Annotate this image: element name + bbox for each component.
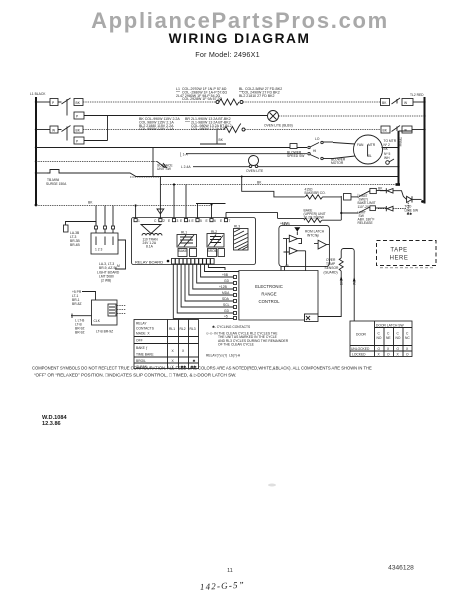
- wire dashed below diode2: [407, 203, 409, 213]
- wire: [58, 101, 62, 103]
- svg-text:OVEN LITE: OVEN LITE: [246, 169, 264, 173]
- svg-text:8.1A: 8.1A: [146, 245, 154, 249]
- svg-text:6: 6: [214, 219, 216, 223]
- svg-text:CONTROL: CONTROL: [258, 299, 280, 304]
- svg-text:+12V: +12V: [280, 222, 289, 226]
- wire diode1 to diode2: [393, 191, 407, 200]
- svg-text:RL1: RL1: [169, 327, 175, 331]
- resistor bake unit: [304, 218, 322, 222]
- svg-text:11: 11: [227, 568, 233, 574]
- wire row4 from L1 to surface switch: [36, 161, 157, 163]
- svg-text:O: O: [397, 347, 400, 351]
- diode 2: [407, 196, 412, 202]
- wire row1b to oven light: [84, 115, 267, 117]
- relay board outline: [132, 218, 256, 265]
- svg-text:GD: GD: [224, 309, 230, 313]
- svg-text:MOTOR: MOTOR: [331, 161, 344, 165]
- power arrow: [294, 227, 300, 231]
- svg-text:1: 1: [138, 219, 140, 223]
- wire row2b: [84, 140, 108, 142]
- svg-text:(GUARD): (GUARD): [324, 271, 338, 275]
- clock box: [92, 300, 118, 325]
- terminal box row2 right b: [402, 126, 412, 133]
- ERC left pins: [234, 276, 237, 320]
- oven light 2 lamp: [249, 156, 259, 166]
- svg-text:COMPONENT SYMBOLS DO NOT REFLE: COMPONENT SYMBOLS DO NOT REFLECT TRUE CO…: [32, 366, 372, 371]
- svg-text:142-G-5”: 142-G-5”: [200, 580, 246, 592]
- wire oven light 2 right: [258, 166, 399, 168]
- svg-text:GD: GD: [224, 279, 230, 283]
- light board label: [97, 262, 120, 283]
- transformer: [141, 225, 161, 234]
- svg-text:NO: NO: [396, 336, 401, 340]
- wire drop from row2 resistor BK: [216, 130, 218, 145]
- ERC box electronic range control: [239, 271, 318, 321]
- junction dots on L2 bus: [421, 101, 426, 203]
- over temp sensor labels: [324, 258, 340, 275]
- svg-text:BAKE ƒ: BAKE ƒ: [136, 346, 148, 350]
- label block row1 center: [176, 87, 227, 101]
- svg-text:RL1: RL1: [181, 231, 187, 235]
- vertical tie row1b-row2b: [107, 116, 109, 141]
- svg-text:+5: +5: [285, 264, 289, 268]
- motor centrifugal switch: [386, 161, 390, 165]
- switch row1: [62, 98, 71, 104]
- svg-text:AppliancePartsPros.com: AppliancePartsPros.com: [91, 8, 389, 33]
- svg-text:RELAY BOARD: RELAY BOARD: [135, 260, 163, 265]
- blower switch contacts HI: [308, 153, 310, 155]
- wire row1 to resistor: [83, 101, 216, 103]
- svg-text:O: O: [387, 353, 390, 357]
- svg-text:CLK: CLK: [94, 319, 101, 323]
- svg-text:✱✱: ✱✱: [407, 212, 413, 216]
- tape box extra dash: [380, 267, 434, 269]
- wire into clock top: [82, 292, 96, 301]
- svg-text:OVEN LITE (BLBS): OVEN LITE (BLBS): [264, 124, 293, 128]
- connector strip squares: [172, 259, 215, 265]
- limit switch bake: [359, 191, 370, 197]
- svg-text:+12B: +12B: [219, 285, 228, 289]
- svg-text:OF THE CLEAN CYCLE: OF THE CLEAN CYCLE: [218, 343, 255, 347]
- svg-text:TIME BAKE: TIME BAKE: [136, 353, 154, 357]
- legend cycling contacts: [206, 325, 289, 358]
- wire to L2: [412, 129, 425, 131]
- wire drop to row2b: [66, 131, 68, 141]
- motor right tiny labels: [384, 139, 397, 160]
- svg-text:3: 3: [177, 219, 179, 223]
- switch row1 right: [392, 98, 401, 104]
- terminal box TB row1: [50, 99, 58, 106]
- wire to L2: [413, 101, 425, 103]
- svg-text:SDA: SDA: [222, 297, 230, 301]
- limit switch broil: [359, 207, 370, 213]
- svg-text:WIRING DIAGRAM: WIRING DIAGRAM: [169, 31, 311, 46]
- switch row2: [62, 126, 71, 132]
- wire oven light 1 to L2: [279, 115, 425, 117]
- terminal box row2 right a: [381, 126, 390, 133]
- svg-text:LT-B BR-9Z: LT-B BR-9Z: [96, 330, 113, 334]
- svg-text:DOOR LATCH SW: DOOR LATCH SW: [376, 323, 404, 327]
- op-amp A: [289, 235, 297, 242]
- wire row1 left: [36, 101, 50, 103]
- resistor broil unit row1: [216, 101, 219, 104]
- svg-text:TAPE: TAPE: [390, 248, 407, 254]
- svg-text:BK: BK: [257, 181, 262, 185]
- label block row2 left: [139, 117, 180, 131]
- oven light 1 lamp: [268, 111, 279, 122]
- svg-text:BAKE: BAKE: [179, 249, 189, 253]
- svg-text:O: O: [378, 347, 381, 351]
- label block row1 right: [239, 87, 282, 98]
- svg-text:BL2 21810 27 FD BK2: BL2 21810 27 FD BK2: [239, 94, 275, 98]
- wire: [58, 129, 62, 131]
- wire to vertical: [323, 196, 342, 198]
- light board stubs right: [118, 240, 126, 255]
- svg-text:NO: NO: [377, 336, 382, 340]
- svg-text:O: O: [406, 353, 409, 357]
- svg-text:BROIL: BROIL: [136, 359, 146, 363]
- wire L1 bus: [35, 97, 37, 206]
- svg-text:4: 4: [189, 219, 191, 223]
- svg-text:BROIL: BROIL: [208, 249, 218, 253]
- svg-text:MDA: MDA: [222, 291, 230, 295]
- terminal box row1: [74, 99, 83, 106]
- blower motor: [354, 135, 383, 164]
- verticals ROM to ERC: [281, 266, 285, 270]
- ERC pin labels: [219, 273, 230, 319]
- terminal box row1b: [74, 112, 84, 119]
- bracket labels: [70, 231, 81, 247]
- svg-text:BK: BK: [219, 138, 224, 142]
- svg-text:SCL: SCL: [223, 303, 230, 307]
- label block row2 right: [185, 117, 232, 131]
- svg-text:L 2-4A: L 2-4A: [181, 165, 191, 169]
- svg-text:COL-980W 13 2A BTL: COL-980W 13 2A BTL: [191, 127, 226, 131]
- wire short seg under row2 drop: [200, 143, 226, 145]
- light board connector box: [91, 233, 118, 254]
- vertical x341: [340, 196, 342, 220]
- resistor row2: [224, 124, 241, 133]
- sensor loop top: [341, 249, 354, 322]
- svg-text:BK: BK: [88, 201, 93, 205]
- svg-text:OFF: OFF: [136, 339, 143, 343]
- svg-text:LOCKED: LOCKED: [352, 353, 366, 357]
- terminal box row1 right a: [381, 99, 390, 106]
- svg-text:BR-4B: BR-4B: [70, 243, 81, 247]
- svg-text:FAN: FAN: [357, 143, 364, 147]
- svg-text:5: 5: [200, 219, 202, 223]
- door latch sw table: [350, 321, 412, 357]
- label limit sw broil: [358, 211, 375, 226]
- wire long y184.5: [161, 184, 399, 186]
- svg-text:“OFF” OR “RELAXED” POSITION.: “OFF” OR “RELAXED” POSITION. □INDICATES …: [34, 373, 236, 378]
- svg-text:2: 2: [163, 219, 165, 223]
- svg-text:For Model: 2496X1: For Model: 2496X1: [195, 50, 260, 59]
- wire BK bottom from L1: [36, 205, 212, 207]
- wire weave down-right: [242, 177, 305, 197]
- svg-text:UNLOCKED: UNLOCKED: [351, 347, 370, 351]
- svg-text:RL2: RL2: [180, 327, 186, 331]
- wire L2 bus: [424, 97, 426, 204]
- svg-text:+5: +5: [224, 315, 228, 319]
- svg-text:INTChip: INTChip: [307, 234, 319, 238]
- svg-text:8L: 8L: [368, 154, 372, 158]
- tick at ROM left: [277, 212, 279, 218]
- wire to oven light 2: [193, 166, 250, 168]
- wire bottom long y177: [130, 176, 160, 178]
- svg-text:ELECTRONIC: ELECTRONIC: [255, 284, 283, 289]
- svg-text:✱- CYCLING CONTACTS: ✱- CYCLING CONTACTS: [212, 325, 251, 329]
- svg-text:✱: ✱: [193, 359, 196, 363]
- wire to vertical: [322, 219, 341, 221]
- svg-text:NC: NC: [405, 336, 410, 340]
- relay contacts table: [134, 320, 199, 369]
- diode 3: [386, 206, 393, 211]
- wire row2 to resistor: [83, 129, 224, 131]
- clock labels bottom left: [75, 319, 85, 335]
- terminal box row1 right b: [402, 99, 413, 106]
- fuse surge protector: [47, 170, 62, 174]
- label bake upper unit: [304, 209, 326, 220]
- svg-text:L1: L1: [176, 87, 180, 91]
- svg-text:BK: BK: [378, 187, 383, 191]
- wire row5 right: [62, 173, 399, 177]
- wire into clock left: [71, 315, 92, 317]
- svg-text:M: M: [117, 264, 120, 268]
- svg-text:HI: HI: [313, 149, 316, 153]
- ERC notch box: [305, 314, 319, 322]
- svg-text:SURGE 150A: SURGE 150A: [46, 182, 67, 186]
- inner right vertical: [398, 131, 400, 185]
- svg-text:RANGE: RANGE: [261, 292, 276, 297]
- vertical from row3 down: [152, 148, 154, 178]
- relay board top terminals: [134, 219, 231, 224]
- wire lower element row: [278, 218, 305, 220]
- verticals into board: [135, 206, 137, 219]
- resistor sensor: [305, 195, 322, 199]
- svg-text:RL3: RL3: [234, 225, 240, 229]
- wire: [351, 196, 358, 198]
- light board connector pins: [96, 206, 113, 227]
- op-amp B: [318, 240, 326, 249]
- blower speed switch box: [290, 144, 297, 149]
- terminal box row2: [50, 126, 58, 133]
- svg-text:UNIT SW: UNIT SW: [157, 167, 172, 171]
- diode 1: [386, 188, 393, 193]
- svg-text:L1 BLACK: L1 BLACK: [30, 92, 46, 96]
- svg-text:BAKE/BR CO.: BAKE/BR CO.: [305, 191, 326, 195]
- switch row2 right: [392, 126, 401, 132]
- svg-text:DOOR: DOOR: [356, 333, 367, 337]
- vertical resistor: [339, 258, 343, 271]
- wire upper sensor row: [304, 196, 306, 198]
- op-amp C: [289, 247, 297, 254]
- wire row3 from L1 to blower switches: [36, 147, 307, 149]
- wire surface to blower hi: [186, 153, 307, 155]
- wire row5 fuse from L1: [36, 172, 47, 174]
- svg-text:MTR: MTR: [368, 143, 376, 147]
- wire row2 left: [36, 129, 50, 131]
- clock labels left: [72, 290, 82, 306]
- terminal box row2: [74, 126, 83, 133]
- svg-text:1 2 3: 1 2 3: [95, 248, 102, 252]
- svg-text:BR-9, AZ-96: BR-9, AZ-96: [99, 266, 117, 270]
- surface unit switch: [157, 162, 165, 168]
- wire row1 right: [243, 101, 381, 103]
- arrows on sensor loop: [340, 276, 343, 281]
- svg-text:BR-9Z: BR-9Z: [75, 331, 85, 335]
- svg-text:MADE X: MADE X: [136, 332, 150, 336]
- svg-text:COL 2928W 1F 9A 57.2Ω: COL 2928W 1F 9A 57.2Ω: [182, 97, 223, 101]
- wire seg y203.5: [196, 203, 226, 205]
- svg-text:WH: WH: [384, 156, 390, 160]
- svg-text:RL3: RL3: [190, 327, 196, 331]
- svg-text:HERE: HERE: [390, 256, 409, 262]
- svg-text:RELAY(?)⎊(?) L6(?)-A: RELAY(?)⎊(?) L6(?)-A: [206, 354, 241, 358]
- svg-text:SENSOR: SENSOR: [325, 266, 340, 270]
- wire row2 right: [245, 129, 381, 131]
- svg-text:4346128: 4346128: [388, 565, 414, 572]
- wire y213: [341, 212, 358, 214]
- wire motor top to inner vertical: [382, 147, 399, 149]
- component box: [344, 194, 352, 201]
- svg-text:7: 7: [229, 219, 231, 223]
- svg-text:BR-8Z: BR-8Z: [72, 302, 82, 306]
- scan smudge: [268, 484, 276, 487]
- tape here box: [377, 241, 437, 266]
- svg-text:SPEED SW: SPEED SW: [287, 154, 305, 158]
- ROM latch box: [279, 225, 330, 266]
- terminal box row2b: [74, 137, 84, 144]
- svg-text:⎣ 1-A: ⎣ 1-A: [180, 153, 188, 157]
- svg-text:RELEASE: RELEASE: [358, 221, 374, 225]
- clock inner box: [108, 304, 116, 316]
- terminal stub box left: [64, 225, 69, 232]
- wire drop to row1b: [66, 104, 68, 116]
- svg-text:NE: NE: [386, 336, 391, 340]
- svg-text:CONTACTS: CONTACTS: [136, 327, 155, 331]
- clock dashes right: [117, 306, 126, 314]
- svg-text:+5B: +5B: [222, 273, 229, 277]
- blower switch contacts LO: [308, 146, 310, 148]
- svg-text:RELAY: RELAY: [136, 322, 147, 326]
- label limit sw bake: [358, 194, 376, 209]
- svg-text:(2 WB): (2 WB): [101, 279, 111, 283]
- wires op-amps: [305, 251, 307, 271]
- svg-text:BR: BR: [185, 117, 190, 121]
- svg-text:TL2 RED: TL2 RED: [410, 93, 424, 97]
- svg-text:12.3.86: 12.3.86: [42, 421, 61, 427]
- junction dots on L1 bus: [35, 101, 38, 207]
- staircase wires connector to ERC: [173, 264, 233, 318]
- wires into motor: [333, 143, 355, 145]
- svg-text:LO: LO: [315, 137, 320, 141]
- wire bracket to light board pins: [66, 222, 97, 227]
- svg-text:COL 980W 115V 2.1A: COL 980W 115V 2.1A: [139, 127, 174, 131]
